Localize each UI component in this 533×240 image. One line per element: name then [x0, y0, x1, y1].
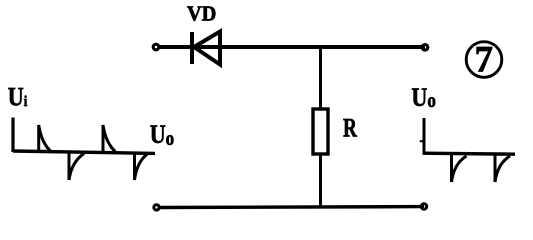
svg-text:R: R: [343, 114, 357, 142]
left waveform positive pulse 2: [103, 125, 115, 152]
diode VD cathode bar: [190, 32, 194, 64]
wire top horizontal: [159, 45, 425, 49]
left waveform vertical axis: [11, 118, 14, 153]
right waveform negative pulse 2: [495, 155, 510, 183]
svg-text:Uo: Uo: [150, 121, 174, 150]
label Ui: [8, 84, 28, 112]
label R: [343, 114, 357, 142]
svg-text:7: 7: [475, 40, 494, 81]
right waveform horizontal axis: [423, 153, 516, 154]
left waveform negative pulse 1: [69, 153, 84, 180]
left waveform horizontal axis: [13, 151, 155, 153]
left waveform negative pulse 2: [135, 153, 148, 180]
wire vertical resistor branch upper: [319, 47, 322, 109]
resistor R body: [313, 109, 328, 154]
right waveform negative pulse 1: [452, 155, 467, 183]
terminal top-left: [153, 44, 159, 50]
left waveform positive pulse 1: [39, 125, 51, 152]
tick on right waveform vertical axis: [420, 140, 423, 142]
svg-text:Ui: Ui: [8, 84, 28, 112]
terminal bottom-right: [421, 204, 426, 209]
label Uo left: [150, 121, 174, 150]
terminal top-right: [422, 45, 428, 51]
terminal bottom-left: [154, 205, 159, 210]
label Uo right: [411, 85, 435, 113]
circled number 7: [466, 40, 502, 81]
wire vertical resistor branch lower: [319, 154, 322, 208]
right waveform vertical axis: [423, 118, 426, 154]
svg-text:VD: VD: [187, 3, 216, 25]
wire bottom horizontal: [159, 205, 424, 209]
diode VD triangle: [194, 32, 220, 65]
svg-text:Uo: Uo: [411, 85, 435, 113]
